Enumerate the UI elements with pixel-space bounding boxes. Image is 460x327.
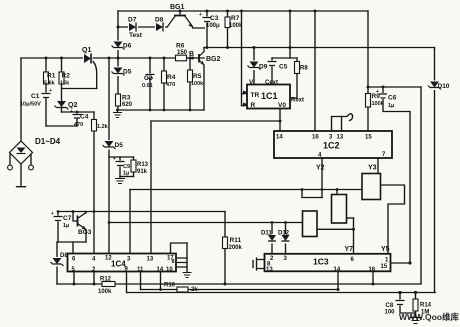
- wire IC4 pin6 riser: [72, 242, 74, 254]
- wire G1 output: [317, 228, 354, 230]
- svg-text:D5: D5: [123, 69, 132, 76]
- svg-text:D10: D10: [438, 83, 450, 90]
- wire C4 stem: [76, 112, 78, 126]
- wire IC4 pin9 riser to bus3: [126, 272, 128, 293]
- wire RC branch top: [109, 156, 134, 158]
- resistor R13: [131, 160, 136, 172]
- svg-text:+: +: [49, 88, 52, 94]
- svg-text:100k: 100k: [191, 81, 204, 87]
- wire bus y222.5: [109, 222, 303, 224]
- transistor BG1: [168, 11, 206, 28]
- svg-text:D6: D6: [123, 43, 132, 50]
- wire AC center electrode: [17, 164, 26, 187]
- wire IC3 pin14 riser: [337, 271, 339, 290]
- wire D8 column: [56, 242, 58, 284]
- resistor R11: [223, 237, 228, 249]
- wire Y2 riser: [321, 158, 323, 198]
- svg-text:R12: R12: [100, 277, 112, 283]
- wire IC1 TR arrow: [242, 93, 247, 95]
- svg-text:R1: R1: [47, 73, 56, 80]
- wire x118 D5 R3 column: [117, 58, 119, 110]
- svg-text:D8: D8: [155, 17, 164, 24]
- wire C5 down to Cext: [271, 58, 273, 85]
- resistor 1.2k: [92, 120, 97, 132]
- svg-text:C4: C4: [80, 114, 89, 121]
- svg-text:Test: Test: [129, 32, 143, 39]
- svg-text:Y3: Y3: [368, 165, 377, 172]
- svg-text:R7: R7: [231, 15, 240, 22]
- ground IC4 right: [183, 273, 192, 278]
- svg-text:100k: 100k: [372, 101, 385, 107]
- svg-text:470: 470: [166, 82, 175, 88]
- svg-text:100k: 100k: [98, 289, 112, 295]
- IC4 box: [68, 254, 177, 272]
- svg-text:BG2: BG2: [206, 56, 221, 63]
- wire BG2 collector up: [203, 48, 205, 52]
- wire IC3 pin15 to x410: [391, 262, 411, 264]
- resistor R2: [59, 72, 64, 84]
- wire ZD9 column: [253, 48, 255, 85]
- wire IC4 pin5 riser: [73, 272, 75, 285]
- svg-text:620: 620: [122, 102, 133, 108]
- wire R5 branch: [189, 58, 191, 110]
- svg-text:14: 14: [157, 267, 164, 273]
- wire bus y211.5: [58, 211, 225, 213]
- wire right bus x434.5 ZD10: [434, 48, 436, 293]
- wire IC4 right side pins: [176, 258, 187, 267]
- svg-text:D12: D12: [278, 231, 290, 237]
- svg-text:R3: R3: [122, 95, 131, 102]
- wire C9 stem: [119, 157, 121, 177]
- wire D7 D8 branch: [118, 26, 168, 28]
- wire IC2 pin16 column: [314, 11, 316, 131]
- svg-text:11: 11: [137, 267, 144, 273]
- capacitor C4: [70, 109, 83, 119]
- transistor BG2: [199, 52, 205, 66]
- wire C7 stem: [57, 212, 59, 243]
- svg-text:1.2k: 1.2k: [97, 124, 109, 130]
- wire R7 column: [227, 11, 229, 48]
- svg-text:8: 8: [172, 259, 175, 265]
- wire ground rail y110: [117, 109, 204, 111]
- AC terminal right: [29, 165, 34, 170]
- svg-text:10: 10: [166, 267, 173, 273]
- resistor R14: [413, 299, 418, 311]
- svg-text:D5: D5: [115, 142, 124, 149]
- wire BG3 emitter down: [85, 230, 87, 243]
- resistor R7: [225, 17, 230, 28]
- wire IC2 jumper pins 3 13: [332, 117, 342, 132]
- svg-text:Rext: Rext: [291, 98, 304, 104]
- svg-text:BG1: BG1: [170, 4, 185, 11]
- wire bus y189.5: [130, 189, 362, 191]
- capacitor C3: [199, 12, 213, 23]
- svg-text:Vi: Vi: [249, 79, 255, 86]
- IC2 box: [274, 131, 392, 158]
- wire R1 C1 column: [45, 58, 47, 126]
- svg-text:+: +: [70, 109, 73, 115]
- svg-text:BG3: BG3: [78, 229, 92, 236]
- svg-text:100μ: 100μ: [206, 23, 220, 29]
- ground RC branch: [115, 177, 125, 184]
- wire G3 output loop: [381, 185, 405, 254]
- wire R14 stem: [415, 293, 417, 318]
- svg-text:C5: C5: [279, 64, 288, 71]
- svg-text:Cext: Cext: [265, 80, 278, 86]
- wire C5 R8 riser x290: [289, 11, 291, 58]
- svg-text:Q1: Q1: [82, 47, 91, 54]
- wire x130 down to IC4 pin3: [129, 190, 131, 254]
- svg-text:1C3: 1C3: [313, 257, 329, 267]
- zener D6: [112, 41, 125, 51]
- wire bridge stem: [20, 58, 22, 141]
- svg-text:C1: C1: [31, 93, 40, 100]
- wire bottom bus3 y292.5: [127, 292, 436, 294]
- wire left column x118 top: [117, 11, 119, 58]
- wire C2 branch: [149, 58, 151, 110]
- wire IC4 right ground stem: [186, 243, 188, 272]
- wire IC4 pin11 riser: [140, 272, 142, 290]
- wire top rail: [118, 10, 368, 12]
- ground R14: [410, 318, 422, 324]
- wire main rail y58: [21, 57, 204, 59]
- wire RC bottom: [120, 176, 134, 178]
- wire 1.2k column to IC4 pin4: [93, 112, 95, 254]
- svg-text:10μ/50V: 10μ/50V: [20, 102, 41, 108]
- resistor R12: [102, 282, 115, 287]
- svg-text:2k: 2k: [191, 287, 198, 293]
- wire bottom bus1 y284: [57, 283, 421, 285]
- svg-text:100: 100: [385, 310, 396, 316]
- svg-text:+: +: [51, 211, 54, 217]
- IC3 box: [265, 254, 391, 271]
- svg-text:C6: C6: [388, 95, 397, 102]
- svg-text:14: 14: [334, 267, 341, 273]
- wire Q1 gate arc: [92, 61, 97, 89]
- svg-text:1μ: 1μ: [63, 223, 69, 229]
- wire D11 stem: [271, 223, 273, 254]
- resistor R10: [177, 287, 188, 292]
- svg-text:C7: C7: [63, 215, 72, 222]
- svg-text:91k: 91k: [137, 169, 148, 175]
- wire Y3 riser: [377, 158, 379, 174]
- svg-text:16: 16: [369, 267, 376, 273]
- svg-text:R11: R11: [230, 237, 242, 244]
- svg-text:1C2: 1C2: [323, 141, 340, 151]
- zener D10: [428, 81, 441, 91]
- wire G2 top tap: [336, 190, 338, 195]
- gate box G2: [332, 195, 347, 224]
- resistor R3: [116, 94, 121, 106]
- svg-text:100k: 100k: [229, 23, 243, 29]
- svg-text:Y5: Y5: [381, 246, 390, 253]
- svg-text:R13: R13: [137, 162, 149, 168]
- svg-text:D9: D9: [259, 64, 268, 71]
- wire IC1 input column x241.5: [241, 11, 243, 106]
- wire ZQ2 gate node y88.5: [62, 88, 97, 90]
- capacitor C1: [40, 88, 52, 98]
- wire C4 bottom y126: [46, 125, 77, 127]
- wire IC1 V0 to IC2 pin14: [279, 109, 281, 132]
- wire x151 down to IC4 pin13: [150, 121, 152, 254]
- wire D12 stem: [285, 223, 287, 254]
- capacitor C7: [51, 211, 64, 222]
- svg-text:C2: C2: [144, 75, 153, 82]
- svg-text:R2: R2: [62, 73, 71, 80]
- wire IC4 pin17 loop: [171, 243, 188, 254]
- wire C3 column: [206, 11, 208, 48]
- wire R2 ZQ2 column: [61, 58, 63, 112]
- wire BG3 collector riser: [85, 212, 87, 214]
- diode D11: [268, 234, 278, 244]
- wire AC left terminal stem: [9, 154, 11, 165]
- svg-text:200k: 200k: [229, 245, 243, 251]
- wire IC3 left bracket pins 8 13: [253, 258, 265, 270]
- wire G2 out link: [347, 217, 354, 219]
- svg-text:V0: V0: [278, 102, 286, 109]
- ground under rail y110: [113, 110, 122, 118]
- svg-text:15: 15: [381, 264, 388, 270]
- svg-text:15k: 15k: [60, 81, 70, 87]
- thyristor Q2: [55, 101, 69, 110]
- svg-text:R10: R10: [164, 283, 176, 289]
- IC1 box: [243, 85, 290, 109]
- svg-text:R5: R5: [193, 73, 202, 80]
- SCR Q1: [83, 53, 93, 64]
- diode D12: [281, 234, 291, 244]
- wire IC1 R arrow: [242, 105, 247, 107]
- gate box G3: [362, 174, 381, 200]
- svg-text:14: 14: [276, 135, 283, 141]
- svg-text:+: +: [113, 156, 116, 162]
- wire R4 branch: [163, 58, 165, 110]
- bridge rectifier D1-D4: [10, 141, 33, 164]
- wire R11 column: [224, 212, 226, 285]
- wire R9 column: [367, 11, 369, 131]
- diode D5 upper: [112, 67, 125, 77]
- svg-text:D11: D11: [261, 231, 272, 237]
- wire right bus x421: [420, 87, 422, 284]
- wire IC4 pin14 riser: [160, 272, 162, 290]
- AC terminal left: [8, 165, 13, 170]
- gate box G1: [303, 211, 318, 237]
- svg-text:D7: D7: [128, 17, 137, 24]
- svg-text:470: 470: [74, 122, 83, 128]
- svg-text:Y7: Y7: [345, 246, 354, 253]
- svg-text:16: 16: [312, 135, 319, 141]
- resistor R4: [162, 71, 167, 83]
- svg-text:1μ: 1μ: [123, 171, 129, 177]
- resistor R1: [44, 72, 49, 84]
- wire C5 R8 tee: [272, 57, 297, 59]
- wire bus189 jog: [302, 190, 322, 198]
- svg-text:C3: C3: [210, 15, 219, 22]
- resistor R8: [295, 62, 300, 74]
- wire R13 stem: [133, 157, 135, 177]
- wire C8 stem: [400, 293, 416, 314]
- capacitor C2: [145, 74, 156, 79]
- svg-text:Y2: Y2: [316, 165, 325, 172]
- svg-text:1μ: 1μ: [388, 103, 394, 109]
- svg-text:R6: R6: [176, 43, 185, 50]
- svg-text:150: 150: [177, 50, 188, 56]
- svg-text:15: 15: [365, 135, 372, 141]
- wire BG3 base riser: [73, 212, 78, 222]
- diode D8: [155, 23, 165, 32]
- wire BG2 emitter down: [203, 65, 205, 110]
- svg-text:R8: R8: [300, 66, 308, 72]
- svg-text:0.01: 0.01: [142, 83, 153, 89]
- zener D5 lower: [103, 140, 116, 150]
- capacitor C6: [376, 89, 388, 99]
- svg-text:5.6k: 5.6k: [44, 81, 56, 87]
- svg-text:R9: R9: [372, 93, 381, 100]
- svg-text:TR: TR: [251, 92, 260, 99]
- svg-text:Q2: Q2: [68, 102, 77, 109]
- svg-text:R4: R4: [167, 74, 176, 81]
- wire y121 from x151: [151, 120, 280, 122]
- wire bottom bus2 y289.5 R10: [141, 289, 339, 291]
- svg-text:13: 13: [147, 257, 154, 263]
- wire Y7 column: [353, 218, 355, 254]
- wire jumper hook: [342, 114, 353, 121]
- wire node y112: [62, 111, 95, 113]
- wire y242 node: [58, 241, 86, 243]
- svg-text:1C1: 1C1: [261, 91, 278, 101]
- svg-text:WWW.Qoo维库: WWW.Qoo维库: [399, 312, 459, 322]
- svg-text:+: +: [199, 12, 202, 18]
- zener D8 lower: [51, 257, 64, 267]
- svg-text:R: R: [251, 102, 256, 109]
- capacitor C5: [267, 61, 278, 67]
- svg-text:13: 13: [266, 267, 273, 273]
- wire IC3 pin16 riser: [372, 271, 374, 284]
- wire rail y87: [368, 86, 421, 88]
- resistor R6: [176, 55, 187, 61]
- capacitor C9: [113, 156, 126, 167]
- svg-text:D1~D4: D1~D4: [35, 137, 61, 146]
- resistor R9: [366, 94, 371, 108]
- wire AC right terminal stem: [30, 154, 32, 165]
- wire ZD5 column to IC4 pin12: [108, 58, 110, 254]
- svg-text:R14: R14: [420, 303, 432, 309]
- diode D7: [128, 23, 138, 32]
- wire C6 branch: [383, 87, 410, 263]
- svg-text:B: B: [189, 51, 194, 58]
- transistor BG3: [78, 213, 87, 230]
- zener D9: [248, 61, 261, 71]
- resistor R5: [188, 70, 193, 82]
- svg-text:C9: C9: [123, 164, 130, 170]
- svg-text:C8: C8: [386, 303, 394, 309]
- wire IC4 pin2 riser: [93, 272, 95, 285]
- wire R8 down to Rext: [290, 58, 297, 98]
- capacitor C8: [395, 300, 406, 306]
- svg-text:D8: D8: [60, 253, 68, 259]
- wire rail y47.5: [204, 47, 435, 49]
